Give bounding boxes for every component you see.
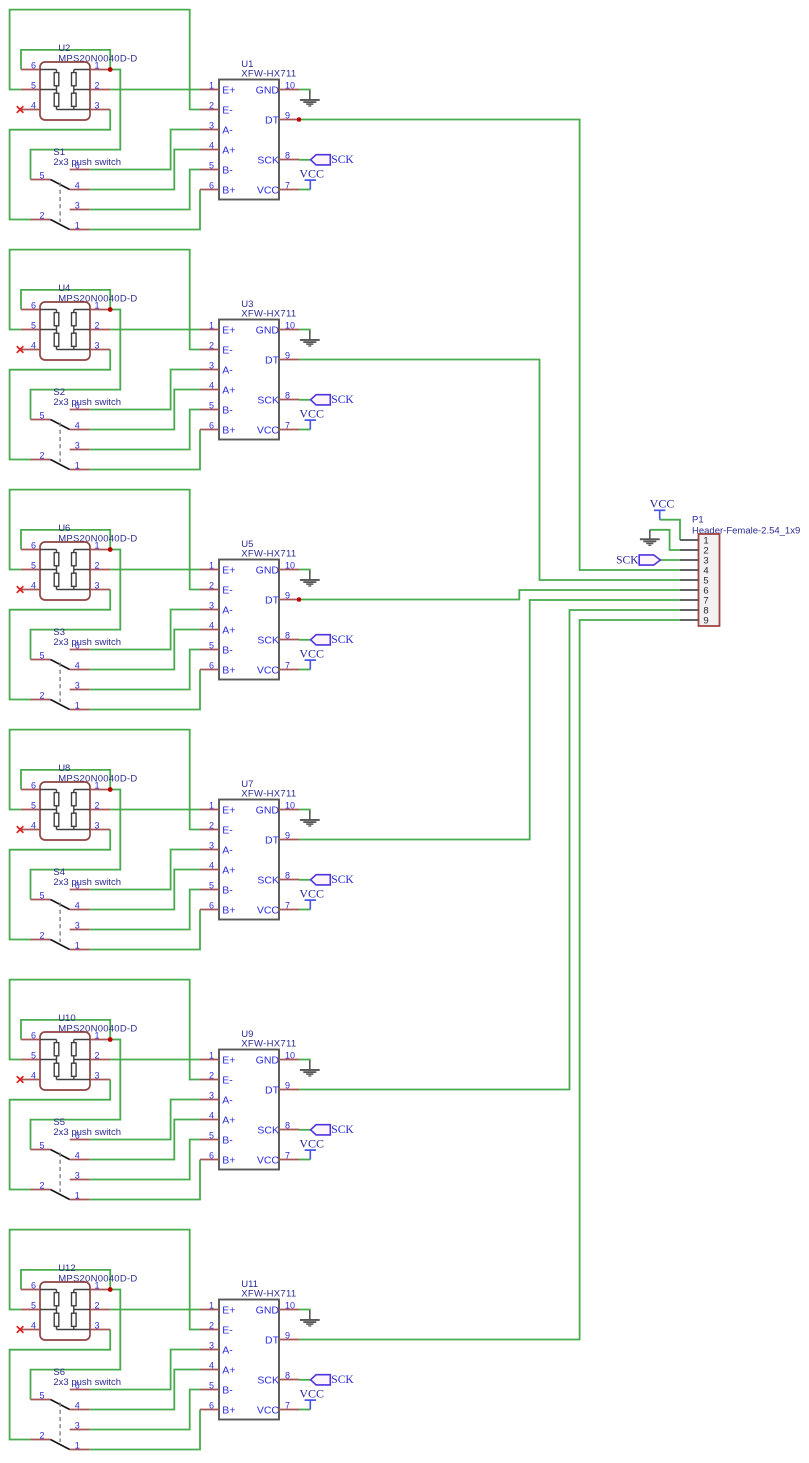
U11 pin 7 stub (VCC) bbox=[279, 1409, 299, 1411]
S6 pin 1 stub bbox=[70, 1449, 90, 1451]
svg-text:6: 6 bbox=[209, 900, 214, 910]
svg-text:2x3 push switch: 2x3 push switch bbox=[53, 1127, 121, 1138]
wire VCC -> P1.1 bbox=[660, 520, 680, 540]
svg-text:B+: B+ bbox=[222, 664, 235, 676]
no-connect X at U2 pin 4 bbox=[17, 106, 24, 113]
svg-text:5: 5 bbox=[31, 1300, 36, 1310]
U3 pin 7 stub (VCC) bbox=[279, 429, 299, 431]
svg-text:1: 1 bbox=[94, 300, 99, 310]
U11 pin 4 stub (A+) bbox=[200, 1369, 219, 1371]
wire U4.2 -> U3.E+ bbox=[110, 329, 200, 331]
svg-text:1: 1 bbox=[209, 1050, 214, 1060]
svg-text:B+: B+ bbox=[222, 184, 235, 196]
U9 pin 3 stub (A-) bbox=[200, 1099, 219, 1101]
svg-text:VCC: VCC bbox=[257, 664, 280, 676]
svg-text:3: 3 bbox=[75, 1170, 80, 1180]
S1 pin 2 stub bbox=[31, 219, 51, 221]
U6 bridge resistor (lower right) bbox=[72, 573, 77, 586]
svg-text:2: 2 bbox=[209, 340, 214, 350]
S5 pin 1 stub bbox=[70, 1199, 90, 1201]
S2 pin 5 stub bbox=[31, 419, 51, 421]
svg-text:P1: P1 bbox=[692, 514, 704, 525]
svg-text:6: 6 bbox=[209, 660, 214, 670]
svg-text:2x3 push switch: 2x3 push switch bbox=[53, 637, 121, 648]
U5 pin 2 stub (E-) bbox=[200, 589, 219, 591]
svg-text:E+: E+ bbox=[222, 1304, 235, 1316]
U10 internal bridge wiring bbox=[40, 1040, 90, 1080]
VCC power symbol at U9.VCC bbox=[305, 1150, 316, 1159]
svg-text:2: 2 bbox=[94, 1300, 99, 1310]
U7 pin 10 stub (GND) bbox=[279, 809, 299, 811]
junction dot at U6 pin 1 bbox=[108, 547, 113, 552]
U11 pin 3 stub (A-) bbox=[200, 1349, 219, 1351]
svg-text:SCK: SCK bbox=[257, 1374, 279, 1386]
junction dot at U2 pin 1 bbox=[108, 67, 113, 72]
U10 bridge resistor (lower right) bbox=[72, 1063, 77, 1076]
svg-text:VCC: VCC bbox=[257, 904, 280, 916]
svg-text:1: 1 bbox=[75, 1190, 80, 1200]
svg-text:6: 6 bbox=[75, 400, 80, 410]
svg-text:SCK: SCK bbox=[257, 1124, 279, 1136]
wire S3.3 -> U5.B- bbox=[90, 650, 200, 690]
svg-text:U8: U8 bbox=[58, 763, 70, 774]
svg-text:4: 4 bbox=[31, 340, 36, 350]
svg-text:2x3 push switch: 2x3 push switch bbox=[53, 397, 121, 408]
wire U10.1 -> S5.5 bbox=[31, 1040, 121, 1150]
U2 pin 6 stub bbox=[21, 69, 40, 71]
svg-text:3: 3 bbox=[75, 920, 80, 930]
U11 pin 5 stub (B-) bbox=[200, 1389, 219, 1391]
P1 pin 5 stub bbox=[680, 579, 699, 581]
svg-text:GND: GND bbox=[256, 324, 280, 336]
svg-text:3: 3 bbox=[75, 1420, 80, 1430]
U6 bridge resistor (lower left) bbox=[54, 573, 59, 586]
svg-text:B+: B+ bbox=[222, 904, 235, 916]
svg-text:SCK: SCK bbox=[331, 1374, 354, 1386]
wire S6.4 -> U11.A+ bbox=[90, 1370, 200, 1410]
wire U12.1 -> S6.5 bbox=[31, 1290, 121, 1400]
svg-text:5: 5 bbox=[31, 80, 36, 90]
wire U11.VCC -> VCC bbox=[299, 1409, 310, 1411]
svg-text:4: 4 bbox=[75, 1400, 80, 1410]
svg-text:E-: E- bbox=[222, 1074, 233, 1086]
svg-text:7: 7 bbox=[285, 1150, 290, 1160]
U1 pin 3 stub (A-) bbox=[200, 129, 219, 131]
svg-text:SCK: SCK bbox=[257, 634, 279, 646]
svg-text:3: 3 bbox=[94, 100, 99, 110]
U3 pin 8 stub (SCK) bbox=[279, 399, 299, 401]
wire S5.3 -> U9.B- bbox=[90, 1140, 200, 1180]
U12 pin 1 stub bbox=[90, 1289, 110, 1291]
svg-text:9: 9 bbox=[285, 110, 290, 120]
svg-text:2: 2 bbox=[39, 450, 44, 460]
S1 pin 5 stub bbox=[31, 179, 51, 181]
svg-text:3: 3 bbox=[209, 360, 214, 370]
svg-text:B+: B+ bbox=[222, 424, 235, 436]
svg-text:GND: GND bbox=[256, 1304, 280, 1316]
svg-text:6: 6 bbox=[209, 1150, 214, 1160]
svg-text:5: 5 bbox=[209, 1130, 214, 1140]
svg-text:A+: A+ bbox=[222, 144, 235, 156]
wire U5.DT -> P1.6 bbox=[299, 590, 680, 600]
S5 mechanical link (dashed) bbox=[59, 1153, 61, 1193]
svg-text:A-: A- bbox=[222, 364, 233, 376]
svg-text:4: 4 bbox=[209, 1110, 214, 1120]
svg-text:B-: B- bbox=[222, 404, 233, 416]
wire S1.1 -> U1.B+ bbox=[90, 190, 200, 230]
svg-text:6: 6 bbox=[209, 180, 214, 190]
svg-text:4: 4 bbox=[31, 820, 36, 830]
U2 bridge resistor (lower left) bbox=[54, 93, 59, 106]
svg-text:10: 10 bbox=[285, 800, 295, 810]
svg-text:E-: E- bbox=[222, 1324, 233, 1336]
U5 pin 7 stub (VCC) bbox=[279, 669, 299, 671]
U2 pin 2 stub bbox=[90, 89, 110, 91]
svg-text:3: 3 bbox=[209, 600, 214, 610]
P1 pin 2 stub bbox=[680, 549, 699, 551]
wire U1.VCC -> VCC bbox=[299, 189, 310, 191]
wire U1.DT -> P1.4 bbox=[299, 120, 680, 571]
svg-text:10: 10 bbox=[285, 80, 295, 90]
ground symbol at U7.GND bbox=[300, 811, 320, 827]
U2 pin 1 stub bbox=[90, 69, 110, 71]
svg-text:B+: B+ bbox=[222, 1154, 235, 1166]
svg-text:U12: U12 bbox=[58, 1263, 75, 1274]
U9 body outline bbox=[219, 1050, 279, 1170]
wire U6.1 -> S3.5 bbox=[31, 550, 121, 660]
wire U5.SCK -> SCK flag bbox=[299, 639, 311, 641]
svg-text:GND: GND bbox=[256, 1054, 280, 1066]
svg-text:7: 7 bbox=[285, 180, 290, 190]
U3 pin 5 stub (B-) bbox=[200, 409, 219, 411]
S6 pin 2 stub bbox=[31, 1439, 51, 1441]
svg-text:5: 5 bbox=[209, 160, 214, 170]
svg-text:4: 4 bbox=[209, 620, 214, 630]
svg-text:E-: E- bbox=[222, 584, 233, 596]
U7 pin 2 stub (E-) bbox=[200, 829, 219, 831]
svg-text:B-: B- bbox=[222, 1384, 233, 1396]
svg-text:6: 6 bbox=[31, 1030, 36, 1040]
svg-text:2: 2 bbox=[209, 1070, 214, 1080]
svg-text:XFW-HX711: XFW-HX711 bbox=[241, 549, 296, 560]
wire S4.3 -> U7.B- bbox=[90, 890, 200, 930]
wire S3.6 -> U5.A- bbox=[90, 610, 200, 650]
U6 pin 4 stub bbox=[21, 589, 40, 591]
svg-text:5: 5 bbox=[31, 560, 36, 570]
svg-text:VCC: VCC bbox=[257, 424, 280, 436]
wire U4.5 -> U3.E- (loop over top) bbox=[10, 250, 200, 350]
no-connect X at U8 pin 4 bbox=[17, 826, 24, 833]
net flag SCK at U3.SCK bbox=[311, 395, 331, 405]
wire U7.SCK -> SCK flag bbox=[299, 879, 311, 881]
U3 pin 3 stub (A-) bbox=[200, 369, 219, 371]
svg-text:3: 3 bbox=[94, 340, 99, 350]
U2 pin 5 stub bbox=[21, 89, 40, 91]
svg-text:1: 1 bbox=[75, 700, 80, 710]
P1 pin 3 stub bbox=[680, 559, 699, 561]
VCC power symbol at U7.VCC bbox=[305, 900, 316, 909]
svg-text:5: 5 bbox=[209, 400, 214, 410]
svg-text:B+: B+ bbox=[222, 1404, 235, 1416]
svg-text:3: 3 bbox=[209, 840, 214, 850]
wire S3.1 -> U5.B+ bbox=[90, 670, 200, 710]
S1 contact arm 2-1 bbox=[51, 220, 70, 230]
svg-text:6: 6 bbox=[75, 160, 80, 170]
U7 pin 6 stub (B+) bbox=[200, 909, 219, 911]
wire S3.4 -> U5.A+ bbox=[90, 630, 200, 670]
U4 pin 2 stub bbox=[90, 329, 110, 331]
U7 pin 4 stub (A+) bbox=[200, 869, 219, 871]
svg-text:7: 7 bbox=[285, 660, 290, 670]
S3 pin 3 stub bbox=[70, 689, 90, 691]
svg-text:B-: B- bbox=[222, 644, 233, 656]
svg-text:E+: E+ bbox=[222, 564, 235, 576]
svg-text:6: 6 bbox=[31, 540, 36, 550]
svg-text:A+: A+ bbox=[222, 864, 235, 876]
wire S4.4 -> U7.A+ bbox=[90, 870, 200, 910]
svg-text:DT: DT bbox=[265, 354, 280, 366]
svg-text:3: 3 bbox=[209, 1090, 214, 1100]
svg-text:6: 6 bbox=[75, 1380, 80, 1390]
U5 pin 6 stub (B+) bbox=[200, 669, 219, 671]
S5 pin 2 stub bbox=[31, 1189, 51, 1191]
U6 internal bridge wiring bbox=[40, 550, 90, 590]
U10 pin 3 stub bbox=[90, 1079, 110, 1081]
U8 pin 4 stub bbox=[21, 829, 40, 831]
svg-text:B-: B- bbox=[222, 1134, 233, 1146]
S5 contact arm 2-1 bbox=[51, 1190, 70, 1200]
S5 contact arm 5-4 bbox=[51, 1150, 70, 1160]
svg-text:1: 1 bbox=[94, 60, 99, 70]
svg-text:1: 1 bbox=[75, 460, 80, 470]
svg-text:1: 1 bbox=[209, 560, 214, 570]
U1 pin 5 stub (B-) bbox=[200, 169, 219, 171]
wire U1.GND -> ground bbox=[299, 90, 310, 92]
svg-text:VCC: VCC bbox=[299, 647, 324, 661]
U2 bridge resistor (upper left) bbox=[54, 73, 59, 86]
U9 pin 8 stub (SCK) bbox=[279, 1129, 299, 1131]
no-connect X at U10 pin 4 bbox=[17, 1076, 24, 1083]
wire U4.3 -> S2.2 bbox=[10, 350, 111, 460]
U12 pin 4 stub bbox=[21, 1329, 40, 1331]
svg-text:4: 4 bbox=[209, 1360, 214, 1370]
U3 pin 9 stub (DT) bbox=[279, 359, 299, 361]
wire U1.SCK -> SCK flag bbox=[299, 159, 311, 161]
wire S1.3 -> U1.B- bbox=[90, 170, 200, 210]
U6 pin 6 stub bbox=[21, 549, 40, 551]
U8 internal bridge wiring bbox=[40, 790, 90, 830]
wire S5.4 -> U9.A+ bbox=[90, 1120, 200, 1160]
svg-text:6: 6 bbox=[31, 780, 36, 790]
svg-text:2x3 push switch: 2x3 push switch bbox=[53, 1377, 121, 1388]
wire U2.3 -> S1.2 bbox=[10, 110, 111, 220]
U10 pin 6 stub bbox=[21, 1039, 40, 1041]
VCC power symbol at P1.1 bbox=[654, 510, 665, 519]
svg-text:6: 6 bbox=[31, 60, 36, 70]
junction dot at U12 pin 1 bbox=[108, 1287, 113, 1292]
U11 pin 2 stub (E-) bbox=[200, 1329, 219, 1331]
svg-text:1: 1 bbox=[94, 780, 99, 790]
svg-text:DT: DT bbox=[265, 834, 280, 846]
svg-text:5: 5 bbox=[39, 890, 44, 900]
P1 pin 8 stub bbox=[680, 609, 699, 611]
svg-text:6: 6 bbox=[75, 880, 80, 890]
wire S2.6 -> U3.A- bbox=[90, 370, 200, 410]
wire U3.VCC -> VCC bbox=[299, 429, 310, 431]
sensor U6 body outline bbox=[40, 542, 90, 600]
net flag SCK at U7.SCK bbox=[311, 875, 331, 885]
U6 pin 2 stub bbox=[90, 569, 110, 571]
wire U7.VCC -> VCC bbox=[299, 909, 310, 911]
svg-text:6: 6 bbox=[75, 1130, 80, 1140]
svg-text:GND: GND bbox=[256, 84, 280, 96]
S6 contact arm 5-4 bbox=[51, 1400, 70, 1410]
U2 internal bridge wiring bbox=[40, 70, 90, 110]
U10 pin 5 stub bbox=[21, 1059, 40, 1061]
U7 pin 8 stub (SCK) bbox=[279, 879, 299, 881]
S4 contact arm 2-1 bbox=[51, 940, 70, 950]
wire U10.6 -> U10.1 (top loop) bbox=[21, 1020, 110, 1040]
svg-text:DT: DT bbox=[265, 1084, 280, 1096]
svg-text:8: 8 bbox=[285, 150, 290, 160]
svg-text:VCC: VCC bbox=[299, 167, 324, 181]
U8 bridge resistor (upper right) bbox=[72, 793, 77, 806]
U6 pin 5 stub bbox=[21, 569, 40, 571]
U7 pin 1 stub (E+) bbox=[200, 809, 219, 811]
wire U2.2 -> U1.E+ bbox=[110, 89, 200, 91]
S5 pin 4 stub bbox=[70, 1159, 90, 1161]
U3 pin 1 stub (E+) bbox=[200, 329, 219, 331]
wire U3.SCK -> SCK flag bbox=[299, 399, 311, 401]
svg-text:3: 3 bbox=[94, 580, 99, 590]
U1 pin 10 stub (GND) bbox=[279, 89, 299, 91]
P1 pin 4 stub bbox=[680, 569, 699, 571]
P1 pin 9 stub bbox=[680, 619, 699, 621]
ground symbol at U11.GND bbox=[300, 1311, 320, 1327]
wire U5.GND -> ground bbox=[299, 570, 310, 572]
svg-text:DT: DT bbox=[265, 594, 280, 606]
U4 pin 6 stub bbox=[21, 309, 40, 311]
svg-text:4: 4 bbox=[31, 1070, 36, 1080]
wire U7.GND -> ground bbox=[299, 810, 310, 812]
svg-text:2: 2 bbox=[94, 80, 99, 90]
svg-text:5: 5 bbox=[39, 1390, 44, 1400]
svg-text:3: 3 bbox=[94, 820, 99, 830]
svg-text:3: 3 bbox=[75, 440, 80, 450]
U3 pin 2 stub (E-) bbox=[200, 349, 219, 351]
svg-text:8: 8 bbox=[285, 870, 290, 880]
U4 pin 3 stub bbox=[90, 349, 110, 351]
svg-text:SCK: SCK bbox=[331, 634, 354, 646]
U8 pin 3 stub bbox=[90, 829, 110, 831]
U4 bridge resistor (lower left) bbox=[54, 333, 59, 346]
U5 pin 5 stub (B-) bbox=[200, 649, 219, 651]
VCC power symbol at U5.VCC bbox=[305, 660, 316, 669]
svg-text:7: 7 bbox=[285, 420, 290, 430]
svg-text:10: 10 bbox=[285, 1300, 295, 1310]
svg-text:XFW-HX711: XFW-HX711 bbox=[241, 69, 296, 80]
junction dot at U10 pin 1 bbox=[108, 1037, 113, 1042]
svg-text:4: 4 bbox=[209, 860, 214, 870]
svg-text:6: 6 bbox=[209, 420, 214, 430]
S3 pin 4 stub bbox=[70, 669, 90, 671]
U12 bridge resistor (lower right) bbox=[72, 1313, 77, 1326]
U8 pin 2 stub bbox=[90, 809, 110, 811]
wire SCK flag -> P1.3 bbox=[661, 559, 681, 561]
svg-text:5: 5 bbox=[39, 1140, 44, 1150]
svg-text:SCK: SCK bbox=[616, 555, 639, 567]
U4 pin 4 stub bbox=[21, 349, 40, 351]
wire U9.GND -> ground bbox=[299, 1060, 310, 1062]
wire S1.6 -> U1.A- bbox=[90, 130, 200, 170]
svg-text:2: 2 bbox=[39, 1430, 44, 1440]
U9 pin 1 stub (E+) bbox=[200, 1059, 219, 1061]
wire U12.5 -> U11.E- (loop over top) bbox=[10, 1230, 200, 1330]
svg-text:A-: A- bbox=[222, 1094, 233, 1106]
U9 pin 7 stub (VCC) bbox=[279, 1159, 299, 1161]
svg-text:9: 9 bbox=[285, 1080, 290, 1090]
svg-text:2: 2 bbox=[39, 1180, 44, 1190]
U2 pin 4 stub bbox=[21, 109, 40, 111]
svg-text:9: 9 bbox=[703, 615, 708, 626]
S1 pin 6 stub bbox=[70, 169, 90, 171]
S5 pin 5 stub bbox=[31, 1149, 51, 1151]
U5 pin 4 stub (A+) bbox=[200, 629, 219, 631]
svg-text:3: 3 bbox=[94, 1320, 99, 1330]
ground symbol at U9.GND bbox=[300, 1061, 320, 1077]
U8 pin 5 stub bbox=[21, 809, 40, 811]
U12 pin 6 stub bbox=[21, 1289, 40, 1291]
junction dot at U4 pin 1 bbox=[108, 307, 113, 312]
U1 body outline bbox=[219, 80, 279, 200]
svg-text:2: 2 bbox=[94, 560, 99, 570]
svg-text:VCC: VCC bbox=[299, 407, 324, 421]
U10 bridge resistor (upper right) bbox=[72, 1043, 77, 1056]
U11 pin 6 stub (B+) bbox=[200, 1409, 219, 1411]
U4 internal bridge wiring bbox=[40, 310, 90, 350]
U5 pin 1 stub (E+) bbox=[200, 569, 219, 571]
svg-text:XFW-HX711: XFW-HX711 bbox=[241, 1289, 296, 1300]
svg-text:9: 9 bbox=[285, 590, 290, 600]
U9 pin 10 stub (GND) bbox=[279, 1059, 299, 1061]
U1 pin 8 stub (SCK) bbox=[279, 159, 299, 161]
svg-text:DT: DT bbox=[265, 1334, 280, 1346]
svg-text:U4: U4 bbox=[58, 283, 70, 294]
svg-text:3: 3 bbox=[209, 1340, 214, 1350]
svg-text:6: 6 bbox=[209, 1400, 214, 1410]
wire U6.3 -> S3.2 bbox=[10, 590, 111, 700]
wire S6.1 -> U11.B+ bbox=[90, 1410, 200, 1450]
S6 pin 4 stub bbox=[70, 1409, 90, 1411]
S2 pin 3 stub bbox=[70, 449, 90, 451]
S3 pin 6 stub bbox=[70, 649, 90, 651]
svg-text:XFW-HX711: XFW-HX711 bbox=[241, 1039, 296, 1050]
svg-text:GND: GND bbox=[256, 804, 280, 816]
svg-text:B-: B- bbox=[222, 164, 233, 176]
svg-text:U10: U10 bbox=[58, 1013, 75, 1024]
U7 pin 7 stub (VCC) bbox=[279, 909, 299, 911]
P1 body outline bbox=[699, 534, 720, 626]
U4 pin 5 stub bbox=[21, 329, 40, 331]
sensor U2 body outline bbox=[40, 62, 90, 120]
S2 pin 4 stub bbox=[70, 429, 90, 431]
S1 pin 4 stub bbox=[70, 189, 90, 191]
U11 body outline bbox=[219, 1300, 279, 1420]
S4 pin 5 stub bbox=[31, 899, 51, 901]
svg-text:10: 10 bbox=[285, 1050, 295, 1060]
U10 bridge resistor (upper left) bbox=[54, 1043, 59, 1056]
wire U12.3 -> S6.2 bbox=[10, 1330, 111, 1440]
